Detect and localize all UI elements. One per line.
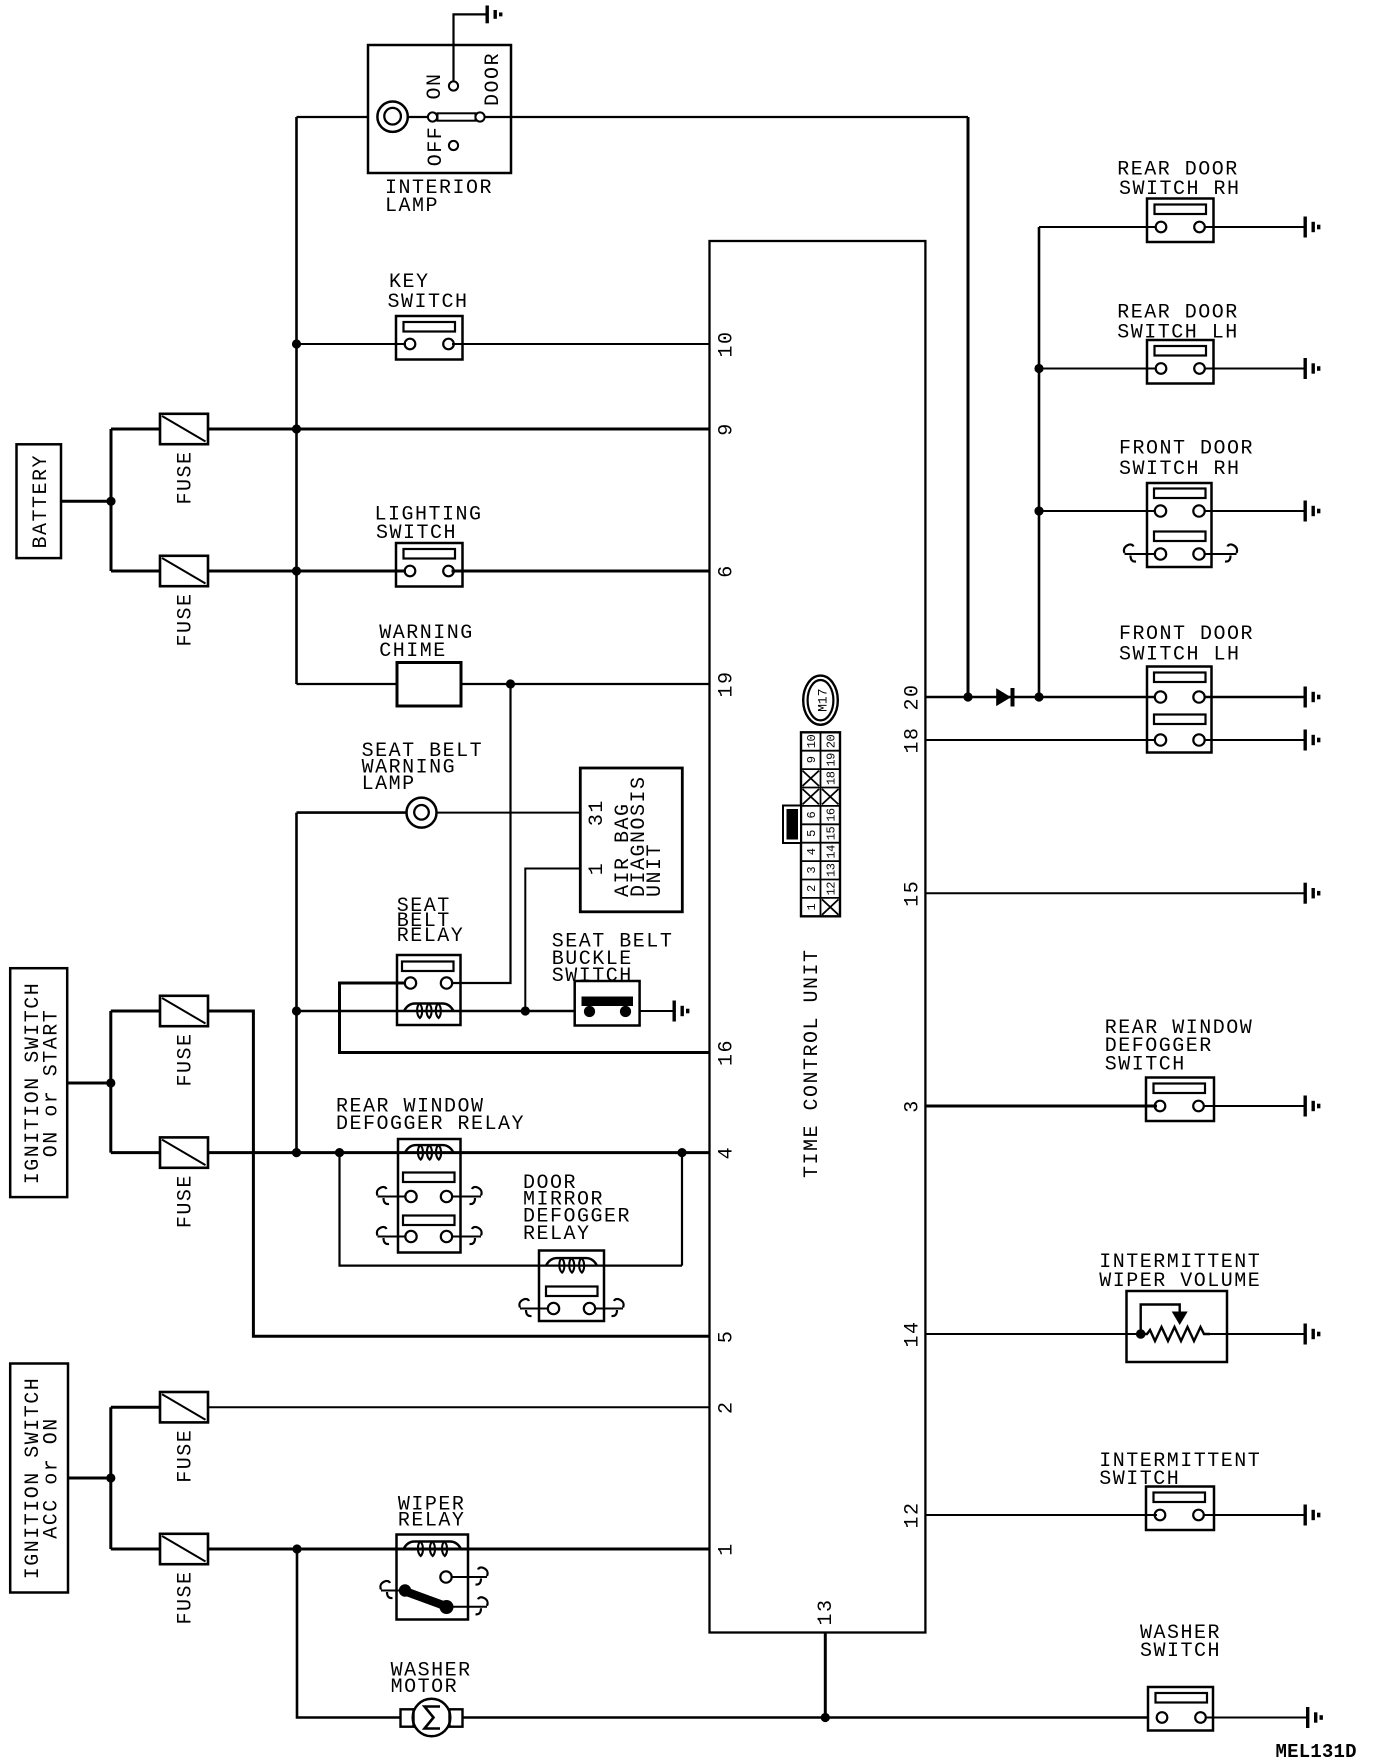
svg-text:15: 15 — [825, 827, 839, 841]
svg-text:1: 1 — [716, 1542, 739, 1556]
svg-text:TIME CONTROL UNIT: TIME CONTROL UNIT — [801, 948, 824, 1178]
svg-text:14: 14 — [825, 845, 839, 859]
ground pin 15 — [1305, 883, 1319, 904]
wire trunk to front door switch RH — [1039, 510, 1156, 512]
svg-text:SWITCH: SWITCH — [1099, 1468, 1180, 1491]
svg-text:SWITCH LH: SWITCH LH — [1117, 321, 1239, 344]
defogger relay row1 right stub and pigtail — [452, 1196, 481, 1198]
washer switch — [1148, 1687, 1213, 1731]
svg-text:RELAY: RELAY — [398, 1509, 466, 1532]
svg-text:FUSE: FUSE — [175, 1429, 198, 1483]
defogger relay contacts row 1 — [405, 1191, 452, 1202]
wire washer motor to washer switch — [463, 1716, 1149, 1718]
intermittent switch — [1146, 1487, 1214, 1531]
fuse F5 (IGN ACC or ON) — [160, 1392, 208, 1422]
wire door mirror relay coil right to pin4 line — [681, 1153, 683, 1266]
wire lighting switch to TCU pin 6 — [452, 570, 710, 573]
svg-text:FUSE: FUSE — [175, 1032, 198, 1086]
svg-text:5: 5 — [805, 830, 819, 837]
svg-text:9: 9 — [716, 422, 739, 436]
wire front door switch RH to ground — [1204, 510, 1303, 512]
svg-text:5: 5 — [716, 1330, 739, 1344]
wire intermittent switch to ground — [1204, 1514, 1304, 1516]
svg-text:FUSE: FUSE — [175, 1174, 198, 1228]
connector pin grid — [801, 732, 840, 916]
wire TCU pin 3 to rear window defogger switch — [925, 1105, 1157, 1108]
svg-text:SWITCH: SWITCH — [552, 965, 633, 988]
wiper relay armature — [399, 1584, 454, 1614]
svg-text:SWITCH: SWITCH — [1140, 1640, 1221, 1663]
wire wiper relay armature bottom to right pigtail — [450, 1606, 487, 1608]
wire door switch trunk vertical — [1038, 227, 1041, 697]
ground seat belt buckle switch — [674, 1001, 688, 1022]
svg-text:CHIME: CHIME — [379, 640, 447, 663]
diode D1 — [996, 688, 1014, 707]
svg-text:OFF: OFF — [425, 126, 448, 167]
seat belt relay slot — [402, 962, 454, 972]
svg-text:10: 10 — [716, 330, 739, 357]
ground front door switch LH lower — [1305, 730, 1319, 751]
svg-text:6: 6 — [805, 811, 819, 818]
rear door switch RH — [1147, 199, 1214, 243]
svg-text:UNIT: UNIT — [644, 843, 667, 897]
buckle switch closed contact symbol — [582, 997, 634, 1018]
svg-text:MEL131D: MEL131D — [1276, 1741, 1357, 1762]
seat belt relay contact left — [405, 977, 416, 988]
node defogger coil line at x682 — [677, 1148, 686, 1157]
wire seat belt relay left contact to pin 16 route — [340, 983, 710, 1053]
wire trunk to rear door switch RH — [1039, 226, 1156, 228]
wire warning chime to TCU pin 19 — [461, 683, 710, 685]
node pin20 at door switch trunk — [1034, 692, 1043, 701]
interior lamp switch blade to DOOR — [438, 113, 476, 120]
svg-text:LAMP: LAMP — [385, 195, 439, 218]
rear door switch LH — [1147, 340, 1214, 384]
interior lamp ON contact — [449, 81, 458, 90]
svg-text:RELAY: RELAY — [523, 1223, 591, 1246]
svg-text:1: 1 — [805, 903, 819, 910]
front door switch RH box — [1147, 483, 1212, 567]
svg-text:ON: ON — [424, 72, 447, 99]
wire seat belt relay coil line — [297, 1010, 576, 1012]
svg-text:4: 4 — [716, 1146, 739, 1160]
svg-text:19: 19 — [825, 753, 839, 767]
svg-text:13: 13 — [815, 1598, 838, 1625]
potentiometer wiper arrow — [1141, 1305, 1180, 1335]
node battery junction — [106, 497, 115, 506]
wire key switch to TCU pin 10 — [452, 343, 710, 345]
svg-text:DOOR: DOOR — [482, 52, 505, 106]
wire lamp to movable contact — [408, 116, 429, 118]
wire TCU pin 12 to intermittent switch — [925, 1514, 1157, 1516]
fuse F2 (battery) — [160, 556, 208, 586]
wire wiper relay armature left feed with pigtail — [381, 1590, 404, 1592]
wire TCU pin 14 to intermittent wiper volume — [925, 1333, 1140, 1335]
svg-text:SWITCH: SWITCH — [376, 522, 457, 545]
node lighting switch line at x296 — [292, 566, 301, 575]
seat belt relay box — [397, 955, 461, 1025]
wire rear door switch LH to ground — [1205, 368, 1304, 370]
ground front door switch RH — [1305, 501, 1319, 522]
wire TCU pin 13 down to washer line — [824, 1633, 827, 1718]
svg-text:SWITCH: SWITCH — [388, 291, 469, 314]
ignition switch ON or START box — [10, 968, 67, 1197]
wire to fuse F3 — [111, 1010, 160, 1013]
svg-text:13: 13 — [825, 863, 839, 877]
door mirror relay right stub and pigtail — [595, 1308, 623, 1310]
svg-text:12: 12 — [902, 1501, 925, 1528]
svg-text:BATTERY: BATTERY — [30, 454, 53, 549]
front door switch RH lower row right pigtail — [1204, 553, 1236, 555]
front door switch LH box — [1147, 667, 1212, 753]
wire trunk to rear door switch LH — [1039, 368, 1156, 370]
wire seat belt relay right contact up to chime junction — [452, 684, 511, 983]
svg-text:SWITCH RH: SWITCH RH — [1119, 458, 1241, 481]
node washer line at TCU pin 13 — [821, 1713, 830, 1722]
washer motor sigma symbol — [425, 1707, 441, 1729]
svg-text:DEFOGGER RELAY: DEFOGGER RELAY — [336, 1113, 525, 1136]
wiper relay NO contact — [440, 1571, 451, 1582]
ground front door switch LH top — [1305, 687, 1319, 708]
svg-text:2: 2 — [805, 885, 819, 892]
wire fuse F3 to pin 5 route — [208, 1011, 710, 1336]
wire fuse F5 to TCU pin 2 — [208, 1406, 710, 1408]
svg-text:M17: M17 — [816, 688, 831, 711]
svg-text:FUSE: FUSE — [175, 1570, 198, 1624]
wire fuse F2 feed — [111, 570, 160, 573]
wire to fuse F4 — [111, 1151, 160, 1154]
wire intermittent wiper volume to ground — [1210, 1333, 1304, 1335]
wire rear window defogger switch to ground — [1204, 1105, 1304, 1107]
node trunk at front door RH line — [1034, 506, 1043, 515]
connector pin numbers — [803, 735, 839, 915]
wire ignition1 to junction — [67, 1082, 111, 1085]
key switch — [396, 316, 463, 360]
ignition switch ACC or ON box — [10, 1364, 68, 1593]
node potentiometer input — [1136, 1329, 1146, 1339]
washer motor terminals — [401, 1709, 463, 1726]
wire interior lamp feed from node at x296 to lamp box — [297, 116, 369, 118]
wire ignition2 to junction — [68, 1477, 111, 1480]
wire to fuse F6 — [111, 1548, 160, 1551]
wire battery junction vertical to both fuses — [110, 429, 113, 571]
wire ignition1 vertical to fuses — [109, 1011, 112, 1153]
wire vertical bus from interior lamp line down to warning chime corner — [295, 117, 298, 684]
svg-text:10: 10 — [805, 735, 819, 749]
svg-text:FUSE: FUSE — [175, 592, 198, 646]
svg-text:20: 20 — [825, 735, 839, 749]
ground interior lamp — [487, 5, 501, 23]
door mirror relay slot — [546, 1287, 598, 1297]
fuse F6 (IGN ACC or ON) — [160, 1534, 208, 1564]
wire bus corner to warning chime — [297, 683, 398, 685]
intermittent wiper volume box — [1127, 1291, 1228, 1362]
node ignition2 junction — [106, 1473, 115, 1482]
wire fuse F4 to rear window defogger relay coil and TCU pin 4 — [208, 1151, 710, 1154]
wiper relay coil — [404, 1542, 462, 1550]
wire front door switch LH top row to ground — [1204, 696, 1303, 698]
fuse F1 (battery) — [160, 414, 208, 444]
washer motor body — [413, 1699, 451, 1737]
wire wiper relay NO contact to right pigtail — [451, 1576, 487, 1578]
wire interior lamp line down to pin 20 line — [967, 117, 970, 697]
wire air bag unit pin 1 down to seat belt relay coil line — [525, 869, 580, 1012]
node air bag pin1 junction — [521, 1006, 530, 1015]
seat belt relay contact right — [441, 977, 452, 988]
svg-text:4: 4 — [805, 848, 819, 855]
interior lamp movable contact — [428, 112, 437, 121]
node coil line at bus — [292, 1006, 301, 1015]
svg-text:18: 18 — [902, 726, 925, 753]
wire seat belt lamp feed from left bus corner — [297, 811, 407, 814]
front door switch RH lower row left pigtail — [1125, 553, 1156, 555]
ground rear door switch LH — [1305, 358, 1319, 379]
ground intermittent switch — [1305, 1505, 1319, 1526]
connector M17 oval — [803, 676, 838, 725]
wire fuse F1 to TCU pin 9 — [208, 428, 710, 431]
interior lamp DOOR contact — [475, 112, 484, 121]
air bag diagnosis unit box — [580, 768, 682, 912]
wire ignition2 vertical to fuses — [109, 1407, 112, 1549]
interior lamp bulb symbol — [377, 102, 407, 132]
wire key switch feed from bus — [297, 343, 407, 345]
wire fuse F2 to lighting switch — [208, 570, 406, 573]
svg-text:16: 16 — [825, 808, 839, 822]
svg-text:18: 18 — [825, 771, 839, 785]
defogger relay row2 left stub and pigtail — [378, 1236, 406, 1238]
fuse F4 (IGN ON or START) — [160, 1137, 208, 1167]
wire buckle switch to ground — [640, 1010, 673, 1012]
interior lamp OFF contact — [449, 141, 458, 150]
svg-text:20: 20 — [902, 683, 925, 710]
seat belt relay coil — [404, 1004, 454, 1012]
rear window defogger switch — [1146, 1078, 1214, 1122]
wire seat belt lamp to air bag diagnosis unit pin 31 — [437, 812, 581, 814]
svg-text:SWITCH LH: SWITCH LH — [1119, 644, 1241, 667]
interior lamp box — [368, 45, 511, 173]
defogger relay slot 2 — [403, 1216, 455, 1226]
ground washer switch — [1308, 1707, 1322, 1728]
ground rear door switch RH — [1305, 217, 1319, 238]
node defogger coil line branch x339 — [335, 1148, 344, 1157]
node key switch branch — [292, 339, 301, 348]
svg-text:ON or START: ON or START — [40, 1009, 63, 1158]
door mirror relay left stub and pigtail — [520, 1308, 548, 1310]
node washer branch at x297 — [292, 1544, 301, 1553]
ground rear window defogger switch — [1305, 1096, 1319, 1117]
svg-text:SWITCH: SWITCH — [1105, 1053, 1186, 1076]
rear window defogger relay coil — [405, 1145, 454, 1153]
wire TCU pin 18 to front door switch LH lower row — [925, 739, 1155, 741]
wire DOOR contact to box edge and right to x968 — [485, 116, 969, 118]
wire battery to junction — [61, 500, 111, 503]
connector key tab — [783, 806, 801, 844]
svg-text:RELAY: RELAY — [397, 925, 465, 948]
lighting switch — [396, 543, 463, 587]
wire front door switch LH lower row to ground — [1204, 739, 1303, 741]
wire washer switch to ground — [1206, 1717, 1306, 1719]
seat belt buckle switch box — [575, 981, 640, 1026]
node fuse F1 line at x296 — [292, 424, 301, 433]
svg-text:31: 31 — [586, 799, 609, 826]
time control unit box — [710, 241, 926, 1633]
defogger relay row2 right stub and pigtail — [452, 1236, 481, 1238]
wire washer feed down from fuse F6 line — [297, 1549, 401, 1718]
svg-text:ACC or ON: ACC or ON — [40, 1417, 63, 1539]
svg-text:1: 1 — [586, 862, 609, 876]
wiper relay box — [397, 1535, 469, 1620]
node ignition1 junction — [106, 1078, 115, 1087]
potentiometer resistor zigzag — [1141, 1327, 1210, 1341]
svg-text:FUSE: FUSE — [175, 450, 198, 504]
node pin20 at interior lamp drop — [963, 692, 972, 701]
door mirror relay contacts — [548, 1303, 595, 1314]
rear window defogger relay box — [398, 1139, 461, 1253]
seat belt warning lamp bulb — [407, 798, 437, 828]
node trunk at rear door LH line — [1034, 364, 1043, 373]
wire TCU pin 15 to ground — [925, 892, 1303, 894]
door mirror defogger relay coil — [546, 1258, 597, 1266]
defogger relay contacts row 2 — [405, 1231, 452, 1242]
defogger relay row1 left stub and pigtail — [398, 1196, 406, 1198]
svg-text:16: 16 — [716, 1039, 739, 1066]
wire left bus vertical x297 from lamp line to defogger coil line — [295, 813, 298, 1153]
defogger relay slot 1 — [403, 1173, 455, 1183]
wire rear door switch RH to ground — [1205, 226, 1304, 228]
warning chime box — [397, 663, 461, 707]
wire TCU pin 20 to front door switch LH — [925, 696, 1155, 698]
svg-text:LAMP: LAMP — [362, 773, 416, 796]
node defogger coil line at bus x297 — [292, 1148, 301, 1157]
svg-text:9: 9 — [805, 756, 819, 763]
svg-text:FRONT DOOR: FRONT DOOR — [1119, 623, 1254, 646]
door mirror defogger relay box — [539, 1251, 604, 1322]
fuse F3 (IGN ON or START) — [160, 996, 208, 1026]
wire fuse F6 to wiper relay coil and TCU pin 1 — [208, 1548, 710, 1551]
svg-text:15: 15 — [902, 880, 925, 907]
svg-text:3: 3 — [902, 1099, 925, 1113]
svg-text:6: 6 — [716, 564, 739, 578]
svg-text:14: 14 — [902, 1320, 925, 1347]
svg-text:SWITCH RH: SWITCH RH — [1119, 178, 1241, 201]
wire battery to fuse 1 — [111, 428, 160, 431]
ground intermittent wiper volume — [1305, 1324, 1319, 1345]
svg-text:3: 3 — [805, 867, 819, 874]
svg-text:2: 2 — [716, 1400, 739, 1414]
wire branch down to door mirror relay coil — [340, 1153, 683, 1266]
wire to fuse F5 — [111, 1406, 160, 1409]
wire ON contact to ground — [454, 14, 488, 81]
svg-text:19: 19 — [716, 670, 739, 697]
svg-text:MOTOR: MOTOR — [391, 1676, 459, 1699]
svg-text:WIPER VOLUME: WIPER VOLUME — [1099, 1270, 1261, 1293]
battery box — [17, 444, 62, 558]
node chime output junction — [506, 679, 515, 688]
svg-text:12: 12 — [825, 882, 839, 896]
svg-text:FRONT DOOR: FRONT DOOR — [1119, 437, 1254, 460]
